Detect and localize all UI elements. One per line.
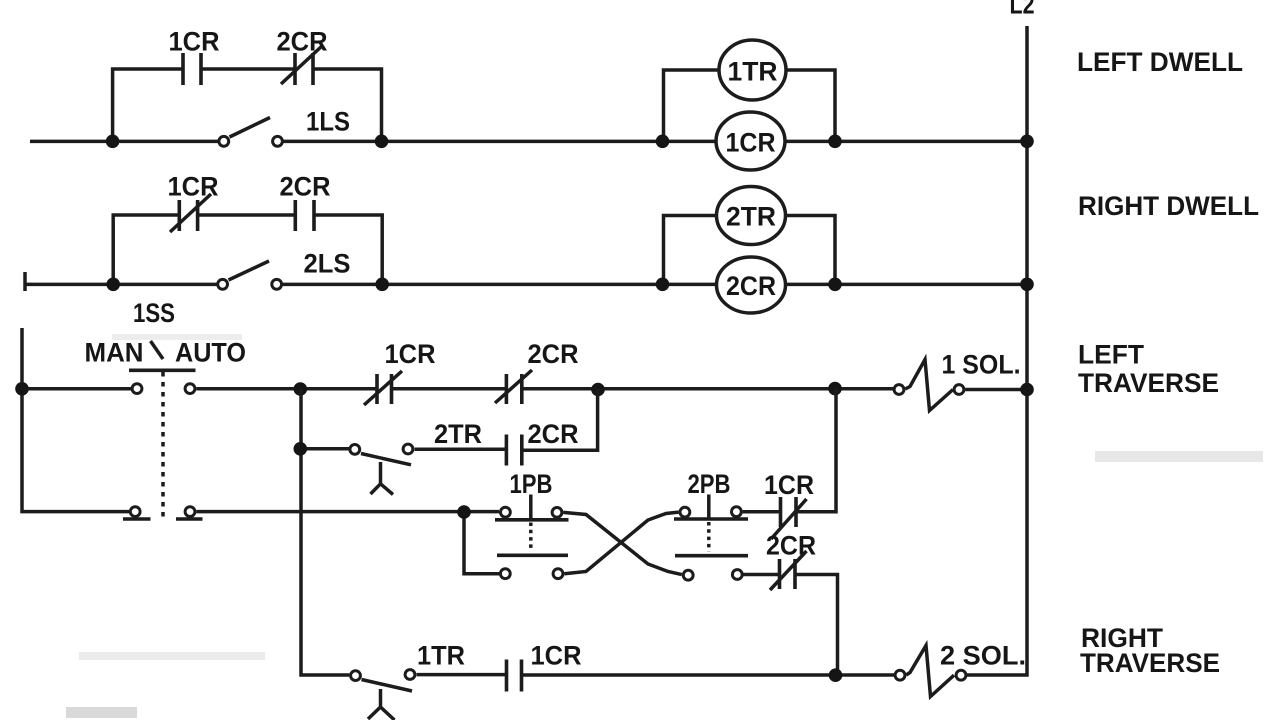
svg-text:AUTO: AUTO <box>175 338 246 368</box>
svg-text:1 SOL.: 1 SOL. <box>942 350 1021 380</box>
svg-text:2 SOL.: 2 SOL. <box>940 641 1026 671</box>
svg-text:2TR: 2TR <box>726 202 776 232</box>
svg-text:LEFT: LEFT <box>1078 340 1144 370</box>
svg-text:1CR: 1CR <box>764 470 814 500</box>
svg-text:L2: L2 <box>1010 0 1035 20</box>
svg-text:2TR: 2TR <box>434 419 482 449</box>
svg-text:TRAVERSE: TRAVERSE <box>1078 368 1219 398</box>
svg-text:LEFT DWELL: LEFT DWELL <box>1077 47 1243 77</box>
svg-text:MAN: MAN <box>85 338 144 368</box>
svg-text:1CR: 1CR <box>168 172 219 202</box>
svg-text:1CR: 1CR <box>726 128 776 158</box>
svg-text:2CR: 2CR <box>766 531 816 561</box>
svg-text:2LS: 2LS <box>304 249 351 279</box>
svg-text:1PB: 1PB <box>510 469 553 499</box>
svg-text:1LS: 1LS <box>306 107 350 137</box>
svg-text:1SS: 1SS <box>133 298 175 328</box>
svg-text:1TR: 1TR <box>728 57 778 87</box>
svg-text:2CR: 2CR <box>528 339 579 369</box>
svg-text:1CR: 1CR <box>531 641 582 671</box>
svg-text:2PB: 2PB <box>688 469 731 499</box>
svg-text:1TR: 1TR <box>417 641 465 671</box>
svg-text:2CR: 2CR <box>277 27 328 57</box>
svg-text:1CR: 1CR <box>385 339 436 369</box>
svg-text:TRAVERSE: TRAVERSE <box>1080 648 1220 678</box>
svg-text:2CR: 2CR <box>280 172 331 202</box>
svg-text:2CR: 2CR <box>726 271 776 301</box>
svg-text:2CR: 2CR <box>528 419 579 449</box>
svg-text:1CR: 1CR <box>169 27 220 57</box>
svg-text:RIGHT DWELL: RIGHT DWELL <box>1078 191 1259 221</box>
